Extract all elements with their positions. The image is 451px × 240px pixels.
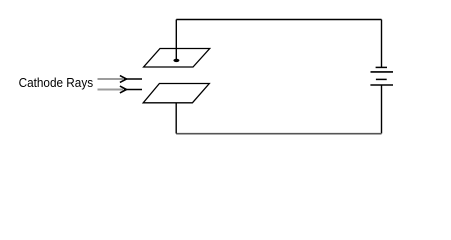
battery plate short (middle) <box>376 78 387 80</box>
cathode ray arrow 1 line after head <box>124 78 142 80</box>
cathode ray arrow 1 head <box>120 76 127 83</box>
battery plate long <box>371 71 394 73</box>
cathode ray arrow 1 (upper) shaft <box>98 78 124 80</box>
top horizontal wire <box>176 19 381 21</box>
right vertical wire to battery top <box>381 20 383 68</box>
battery plate short (top) <box>376 66 387 68</box>
wire from top wire down to top plate <box>175 20 177 61</box>
svg-text:Cathode Rays: Cathode Rays <box>19 75 94 90</box>
connection dot on top plate <box>173 59 179 62</box>
cathode ray arrow 2 (lower) shaft <box>98 89 124 91</box>
right vertical wire from battery bottom <box>381 85 383 134</box>
bottom deflection plate <box>143 84 209 103</box>
top deflection plate <box>144 49 210 68</box>
left vertical wire up to bottom plate <box>175 103 177 134</box>
cathode ray arrow 2 head <box>120 86 127 93</box>
battery plate long (bottom) <box>370 84 393 86</box>
cathode ray arrow 2 line after head <box>124 89 142 91</box>
bottom horizontal wire <box>176 133 381 135</box>
